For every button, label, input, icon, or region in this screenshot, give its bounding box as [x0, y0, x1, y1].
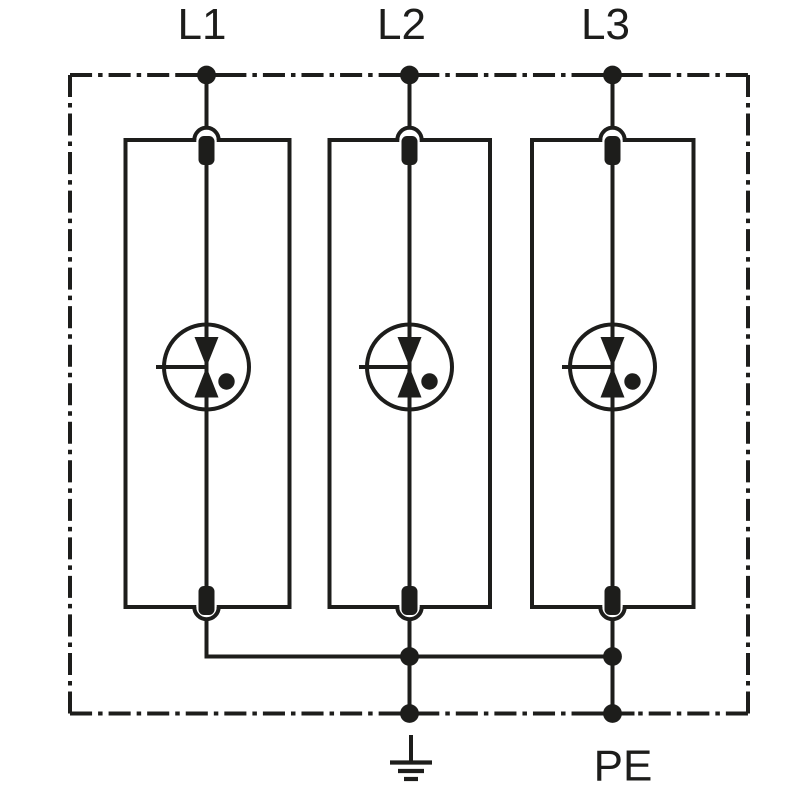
wire from L1 node down to module 1 plug-in contact — [205, 75, 209, 127]
wire from module 3 bottom contact down to enclosure border — [611, 621, 615, 714]
node: border / ground lead junction — [400, 704, 419, 723]
plug-in terminal pin, module 3 bottom — [605, 586, 621, 615]
enclosure border: top edge (dash-dot) — [70, 73, 748, 77]
plug-in terminal pin, module 1 top — [199, 136, 215, 165]
plug-in contact socket arc, module 1 bottom — [194, 607, 218, 619]
node: PE bus / module 2 junction — [400, 647, 419, 666]
wire: solid border segment at top node x=409.5 — [383, 73, 437, 77]
svg-text:L3: L3 — [581, 0, 630, 49]
spark gap module 3: trigger electrode line — [562, 365, 613, 369]
protection module 2 outline — [330, 140, 491, 607]
wire from module 1 bottom contact to PE bus (L-shaped) — [207, 621, 613, 657]
spark gap module 1: circle — [164, 325, 249, 410]
svg-text:L1: L1 — [178, 0, 227, 49]
spark gap module 3: lower electrode triangle — [601, 367, 625, 398]
node L3 (junction dot on enclosure border) — [603, 66, 622, 85]
node: border / PE terminal junction — [603, 704, 622, 723]
internal wire of module 3 — [611, 165, 615, 586]
wire from L2 node down to module 2 plug-in contact — [408, 75, 412, 127]
protection module 3 outline — [532, 140, 694, 607]
wire from L3 node down to module 3 plug-in contact — [611, 75, 615, 127]
enclosure border: right edge (dash-dot) — [746, 75, 750, 714]
plug-in contact socket arc, module 1 top — [194, 128, 218, 140]
plug-in terminal pin, module 2 top — [402, 136, 418, 165]
wire: solid border segment at top node x=612.5 — [586, 73, 640, 77]
spark gap module 2: trigger electrode line — [359, 365, 410, 369]
plug-in contact socket arc, module 3 top — [600, 128, 624, 140]
wire: solid border segment at top node x=206.5 — [180, 73, 234, 77]
node L1 (junction dot on enclosure border) — [197, 66, 216, 85]
wire from module 2 bottom contact down to enclosure border — [408, 621, 412, 714]
spark gap module 3: gas-discharge dot — [624, 373, 640, 389]
enclosure border: bottom edge (dash-dot) — [70, 712, 748, 716]
svg-text:PE: PE — [594, 741, 653, 790]
wire: solid border segment at bottom node x=409.5 — [388, 712, 432, 716]
plug-in contact socket arc, module 2 bottom — [397, 607, 421, 619]
wire: solid border segment at bottom node x=612.5 — [591, 712, 635, 716]
spark gap module 2: lower electrode triangle — [398, 367, 422, 398]
spark gap module 1: lower electrode triangle — [195, 367, 219, 398]
spark gap module 3: upper electrode triangle — [601, 337, 625, 367]
plug-in terminal pin, module 2 bottom — [402, 586, 418, 615]
plug-in contact socket arc, module 3 bottom — [600, 607, 624, 619]
protection module 1 outline — [126, 140, 290, 607]
spark gap module 1: upper electrode triangle — [195, 337, 219, 367]
enclosure border: left edge (dash-dot) — [68, 75, 72, 714]
ground: bottom bar — [404, 777, 418, 781]
internal wire of module 2 — [408, 165, 412, 586]
spark gap module 2: upper electrode triangle — [398, 337, 422, 367]
ground: top bar — [390, 760, 432, 764]
plug-in terminal pin, module 1 bottom — [199, 586, 215, 615]
spark gap module 1: trigger electrode line — [156, 365, 207, 369]
plug-in contact socket arc, module 2 top — [397, 128, 421, 140]
ground: middle bar — [398, 769, 424, 773]
spark gap module 2: circle — [367, 325, 452, 410]
svg-text:L2: L2 — [377, 0, 426, 49]
spark gap module 1: gas-discharge dot — [218, 373, 234, 389]
node: PE bus / module 3 junction — [603, 647, 622, 666]
internal wire of module 1 — [205, 165, 209, 586]
plug-in terminal pin, module 3 top — [605, 136, 621, 165]
spark gap module 2: gas-discharge dot — [421, 373, 437, 389]
node L2 (junction dot on enclosure border) — [400, 66, 419, 85]
spark gap module 3: circle — [570, 325, 655, 410]
ground: vertical lead — [409, 735, 413, 763]
